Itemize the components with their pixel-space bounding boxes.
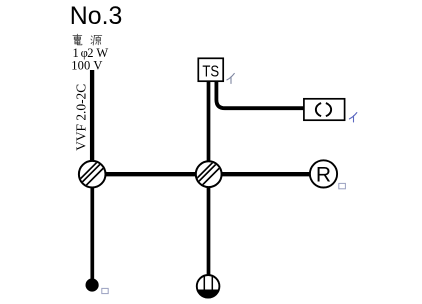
time switch TS bbox=[198, 58, 223, 81]
svg-text:No.3: No.3 bbox=[70, 2, 123, 30]
wire B down to ceiling rosette bbox=[207, 174, 211, 277]
label ロ (at dot) bbox=[102, 288, 108, 293]
lamp receptacle R bbox=[310, 160, 337, 187]
wire B to lamp receptacle R bbox=[208, 172, 318, 176]
label イ (at TS) bbox=[227, 73, 234, 83]
outdoor light box イ bbox=[304, 99, 345, 120]
power feed wire (vertical) bbox=[90, 70, 94, 174]
svg-text:TS: TS bbox=[202, 63, 219, 80]
ceiling rosette (round) bbox=[196, 274, 221, 299]
svg-text:100 V: 100 V bbox=[71, 58, 102, 72]
luminaire outlet (filled dot) ロ bbox=[86, 278, 99, 291]
junction box A (hatched circle) bbox=[73, 161, 109, 188]
main wire A to B bbox=[92, 172, 209, 176]
power source label 源 bbox=[91, 35, 102, 45]
svg-text:VVF 2.0-2C: VVF 2.0-2C bbox=[75, 84, 90, 151]
svg-text:R: R bbox=[316, 164, 331, 187]
junction box B (hatched circle) bbox=[189, 161, 225, 187]
wire B up to time switch TS bbox=[207, 81, 211, 175]
wire TS to outdoor light box (bend) bbox=[216, 80, 305, 108]
wire A down to luminaire bbox=[90, 174, 94, 281]
lamp symbol ( ) bbox=[316, 103, 321, 116]
label ロ (at R) bbox=[339, 183, 346, 188]
power source label 電 bbox=[73, 34, 82, 45]
label イ (at outdoor light) bbox=[349, 113, 356, 122]
